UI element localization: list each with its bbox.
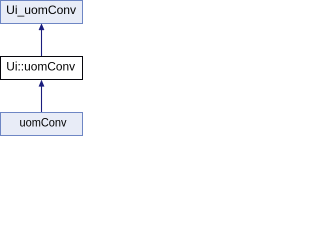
- background: [0, 0, 83, 136]
- inheritance arrow 1 shaft: [41, 30, 43, 56]
- inheritance arrow 1 head: [39, 24, 44, 30]
- node Ui_uomConv box: [1, 1, 83, 24]
- svg-text:uomConv: uomConv: [20, 117, 67, 130]
- svg-text:Ui::uomConv: Ui::uomConv: [6, 60, 75, 74]
- inheritance arrow 2 head: [39, 80, 44, 86]
- node Ui::uomConv box: [1, 57, 83, 80]
- svg-text:Ui_uomConv: Ui_uomConv: [6, 4, 76, 17]
- inheritance arrow 2 shaft: [41, 86, 43, 112]
- doxygen-style inheritance graph: [0, 0, 83, 136]
- current node uomConv box: [1, 113, 83, 136]
